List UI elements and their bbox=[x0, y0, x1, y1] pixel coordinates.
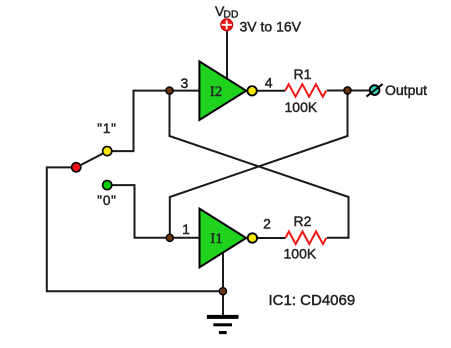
svg-text:2: 2 bbox=[263, 216, 271, 232]
svg-text:100K: 100K bbox=[284, 245, 317, 261]
svg-text:R1: R1 bbox=[294, 66, 312, 82]
svg-text:4: 4 bbox=[265, 74, 273, 90]
svg-text:Output: Output bbox=[385, 82, 427, 98]
svg-text:"1": "1" bbox=[97, 121, 117, 136]
svg-text:100K: 100K bbox=[285, 99, 318, 115]
svg-text:3V to 16V: 3V to 16V bbox=[240, 18, 302, 34]
svg-text:3: 3 bbox=[181, 75, 189, 91]
svg-text:I2: I2 bbox=[210, 84, 223, 100]
svg-text:I1: I1 bbox=[210, 231, 223, 247]
svg-text:1: 1 bbox=[182, 221, 190, 237]
svg-text:IC1: CD4069: IC1: CD4069 bbox=[269, 292, 356, 309]
svg-text:"0": "0" bbox=[97, 193, 117, 208]
svg-text:DD: DD bbox=[223, 9, 239, 21]
svg-text:R2: R2 bbox=[294, 213, 312, 229]
